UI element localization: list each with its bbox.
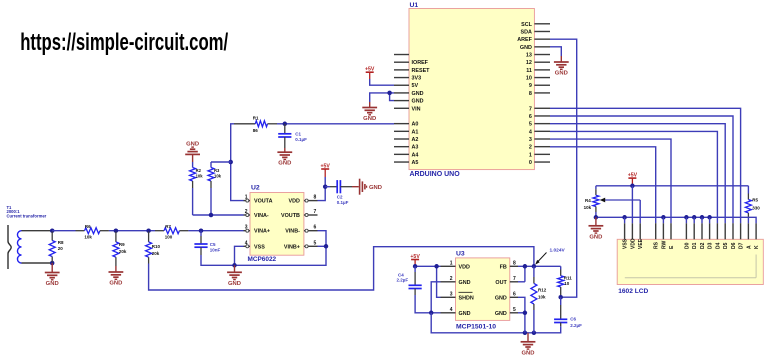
svg-text:12: 12 — [526, 60, 532, 66]
svg-text:4: 4 — [529, 129, 532, 135]
wire rail R6 to R7 — [109, 230, 155, 232]
svg-text:10: 10 — [564, 281, 570, 286]
svg-text:R3: R3 — [214, 168, 220, 173]
svg-text:A0: A0 — [412, 122, 419, 128]
svg-text:A4: A4 — [412, 152, 419, 158]
svg-text:IOREF: IOREF — [412, 60, 429, 66]
LCD inner screen outline — [625, 277, 756, 279]
svg-text:R12: R12 — [538, 288, 547, 293]
svg-text:VSS: VSS — [254, 244, 265, 250]
svg-text:A: A — [746, 245, 752, 249]
svg-text:6: 6 — [513, 291, 516, 297]
svg-text:U1: U1 — [410, 2, 419, 9]
svg-text:C2: C2 — [337, 195, 343, 200]
node LCD VDD junction — [630, 184, 635, 189]
resistor R5 — [747, 186, 749, 194]
svg-text:RS: RS — [654, 241, 660, 249]
svg-text:FB: FB — [500, 264, 507, 270]
svg-text:GND: GND — [369, 185, 382, 191]
svg-text:AREF: AREF — [517, 37, 532, 43]
svg-text:11: 11 — [526, 68, 532, 74]
svg-text:RW: RW — [661, 240, 667, 249]
svg-text:SDA: SDA — [521, 29, 532, 35]
wire LCD +5V rail — [596, 185, 749, 187]
svg-text:3V3: 3V3 — [412, 76, 422, 82]
svg-text:D7: D7 — [739, 242, 745, 249]
svg-text:10k: 10k — [84, 235, 92, 240]
svg-text:5: 5 — [513, 307, 516, 313]
svg-text:10k: 10k — [196, 173, 204, 178]
svg-text:10nF: 10nF — [210, 247, 221, 252]
svg-text:D4: D4 — [715, 242, 721, 249]
wire T1 top lead — [22, 230, 53, 232]
svg-text:330: 330 — [752, 206, 760, 211]
wire +5V to U1 5V pin — [370, 79, 394, 85]
svg-text:0: 0 — [529, 160, 532, 166]
node A0/C1 junction — [283, 122, 288, 127]
U1 right pins (SCL SDA AREF GND 13-8, 7-0) — [534, 23, 550, 25]
svg-text:GND: GND — [186, 141, 199, 147]
node FB junction — [523, 264, 528, 269]
U1 left pins (IOREF RESET 3V3 5V GND GND VIN A0-A5) — [394, 54, 409, 56]
wire U1 pin 6->D6 — [550, 116, 733, 223]
svg-text:VOUTA: VOUTA — [254, 199, 273, 205]
resistor R8 — [51, 232, 53, 241]
svg-text:https://simple-circuit.com/: https://simple-circuit.com/ — [20, 29, 228, 56]
resistor R9 — [115, 232, 117, 242]
svg-text:R7: R7 — [165, 224, 171, 229]
svg-text:C5: C5 — [210, 242, 216, 247]
svg-text:GND: GND — [363, 116, 376, 122]
svg-text:GND: GND — [412, 91, 424, 97]
svg-text:GND: GND — [459, 280, 471, 286]
resistor R12 — [533, 266, 535, 277]
svg-text:VOUTB: VOUTB — [281, 213, 300, 219]
svg-text:GND: GND — [459, 311, 471, 317]
wire U1 pin 5->D5 — [550, 124, 725, 224]
svg-text:A2: A2 — [412, 137, 419, 143]
svg-text:GND: GND — [412, 99, 424, 105]
svg-text:A5: A5 — [412, 160, 419, 166]
svg-text:7: 7 — [513, 276, 516, 282]
svg-text:6: 6 — [314, 225, 317, 231]
svg-text:0.1µF: 0.1µF — [337, 200, 349, 205]
svg-text:C4: C4 — [398, 272, 404, 277]
ground (C1) — [284, 148, 286, 152]
node R9 junction — [114, 228, 119, 233]
svg-text:D0: D0 — [684, 242, 690, 249]
ground (U1 right) — [560, 56, 562, 62]
transformer T1 secondary coil — [17, 231, 21, 263]
svg-text:1602 LCD: 1602 LCD — [618, 288, 648, 295]
svg-text:MCP1501-10: MCP1501-10 — [456, 323, 496, 330]
svg-text:C6: C6 — [570, 317, 576, 322]
resistor R7 — [155, 230, 164, 232]
svg-text:VSS: VSS — [623, 238, 629, 249]
svg-text:8: 8 — [314, 195, 317, 201]
node U3 pin4 junction — [429, 311, 434, 316]
svg-text:1: 1 — [529, 152, 532, 158]
capacitor C6 — [560, 297, 562, 305]
ground (U1 left) — [369, 102, 371, 108]
vref U3 body — [456, 258, 510, 321]
svg-text:GND: GND — [278, 161, 291, 167]
svg-text:SHDN: SHDN — [459, 295, 474, 301]
node ground rail / pins 5-6 — [523, 331, 528, 336]
svg-text:A3: A3 — [412, 145, 419, 151]
svg-text:13: 13 — [526, 53, 532, 59]
svg-text:2: 2 — [450, 276, 453, 282]
ground (LCD) — [595, 217, 597, 226]
svg-text:VINA-: VINA- — [254, 213, 269, 219]
svg-text:OUT: OUT — [495, 280, 507, 286]
svg-text:VINA+: VINA+ — [254, 229, 270, 235]
wire U1 GND pins to ground — [370, 93, 394, 102]
svg-text:GND: GND — [520, 45, 532, 51]
svg-text:SCL: SCL — [521, 22, 532, 28]
display LCD1 body — [617, 239, 763, 284]
svg-text:8: 8 — [513, 260, 516, 266]
svg-text:1.024V: 1.024V — [550, 247, 566, 253]
svg-text:A1: A1 — [412, 129, 419, 135]
svg-text:C1: C1 — [295, 132, 301, 137]
node R4 bottom junction — [594, 215, 599, 220]
wire +5V to U3 VDD / SHDN — [415, 265, 440, 267]
svg-text:3: 3 — [450, 291, 453, 297]
power ground terminal (C2 right) — [352, 186, 359, 188]
svg-text:4: 4 — [245, 240, 248, 246]
wire U2 VOUTA to R1 (node A0 feed) — [231, 124, 244, 201]
svg-text:R2: R2 — [196, 168, 202, 173]
svg-text:20k: 20k — [152, 251, 160, 256]
wire U1 AREF to 1.024V reference node — [550, 39, 577, 297]
wire U3 GND pins 5,6 to rail — [518, 297, 525, 333]
svg-text:R10: R10 — [152, 244, 161, 249]
potentiometer R4 — [595, 186, 597, 189]
node 1.024V junction — [532, 264, 537, 269]
svg-text:GND: GND — [522, 350, 535, 356]
wire +5V to U2 VDD pin — [318, 187, 326, 201]
svg-text:GND: GND — [589, 234, 602, 240]
U2 left pins 1-4 — [244, 200, 251, 202]
svg-text:VDD: VDD — [630, 238, 636, 249]
wire U3 FB/OUT tie — [518, 265, 561, 267]
wire T1 bottom lead — [22, 262, 53, 264]
svg-text:D1: D1 — [692, 242, 698, 249]
node R11 bottom junction — [558, 295, 563, 300]
node VSS/GND junction — [232, 263, 237, 268]
wire U2 ground rail — [201, 231, 326, 266]
svg-text:2: 2 — [529, 145, 532, 151]
op-amp U2 body — [250, 193, 304, 256]
node T1 bottom junction — [50, 261, 55, 266]
svg-text:2.2µF: 2.2µF — [570, 323, 582, 328]
ground (R9) — [115, 266, 117, 272]
svg-text:3: 3 — [529, 137, 532, 143]
svg-text:Current transformer: Current transformer — [7, 214, 47, 219]
capacitor C5 — [200, 231, 202, 236]
resistor R6 — [76, 230, 85, 232]
svg-text:VINB-: VINB- — [285, 229, 300, 235]
wire R1 to U1 A0 — [277, 123, 394, 125]
ground (U2 VSS) — [234, 265, 236, 272]
svg-text:GND: GND — [109, 281, 122, 287]
U3 left pins 1-4 — [441, 265, 456, 267]
node VDD/C2 junction — [323, 184, 328, 189]
wire 1.024V offset net (R10 to U3 FB node) — [149, 247, 534, 290]
svg-text:R4: R4 — [585, 198, 591, 203]
svg-text:R11: R11 — [564, 276, 573, 281]
svg-text:10k: 10k — [214, 173, 222, 178]
wire U1 pin 3->E — [550, 139, 671, 223]
R4 wiper — [604, 199, 641, 201]
svg-text:20: 20 — [58, 246, 64, 251]
svg-text:GND: GND — [555, 71, 568, 77]
svg-text:D2: D2 — [700, 242, 706, 249]
svg-text:GND: GND — [228, 281, 241, 287]
node C5 junction — [199, 228, 204, 233]
transformer T1 primary — [8, 225, 11, 269]
svg-text:10: 10 — [526, 76, 532, 82]
node VINB+ junction — [324, 244, 329, 249]
ground (above R2, flipped) — [192, 154, 194, 162]
svg-text:ARDUINO UNO: ARDUINO UNO — [410, 171, 461, 178]
svg-text:100: 100 — [165, 235, 173, 240]
svg-text:9: 9 — [529, 83, 532, 89]
wire VOUTA node to R3 top — [211, 161, 231, 163]
svg-text:5: 5 — [529, 122, 532, 128]
svg-text:2.2µF: 2.2µF — [397, 278, 409, 283]
resistor R11 — [560, 266, 562, 269]
wire VINA- line — [193, 214, 244, 216]
wire U1 pin 4->D4 — [550, 131, 717, 223]
svg-text:8: 8 — [529, 91, 532, 97]
svg-text:R9: R9 — [119, 242, 125, 247]
svg-text:2: 2 — [245, 209, 248, 215]
svg-text:D6: D6 — [731, 242, 737, 249]
svg-text:VIN: VIN — [412, 106, 421, 112]
wire U3 GND pin 2 down — [431, 282, 440, 313]
wire U1 pin 2->RS — [550, 147, 656, 223]
LCD pins VSS..K — [624, 223, 626, 239]
svg-text:R6: R6 — [85, 224, 91, 229]
svg-text:VDD: VDD — [459, 264, 470, 270]
node R3/VINA- junction — [209, 213, 214, 218]
nodes LCD ground rail (VSS RW D0-D3) — [622, 215, 627, 220]
svg-text:K: K — [754, 245, 760, 249]
wire LCD ground rail — [596, 217, 756, 223]
svg-text:GND: GND — [46, 281, 59, 287]
svg-text:R8: R8 — [58, 240, 64, 245]
mcu U1 body — [409, 9, 534, 170]
wire U3 bottom ground rail — [431, 313, 561, 333]
node VOUTA/R3 junction — [228, 160, 233, 165]
ground (U3) — [527, 333, 529, 342]
svg-text:U3: U3 — [456, 250, 465, 257]
resistor R10 — [148, 232, 150, 242]
svg-text:5: 5 — [314, 240, 317, 246]
svg-text:5V: 5V — [412, 83, 419, 89]
svg-text:1: 1 — [245, 195, 248, 201]
wire rail R7 to U2 VINA+ — [188, 230, 243, 232]
wire U1 pin 7->D7 — [550, 108, 741, 223]
svg-text:U2: U2 — [251, 185, 260, 192]
ground (T1/R8) — [51, 263, 53, 273]
svg-text:VEE: VEE — [638, 238, 644, 249]
U2 right pins 8-5 — [304, 200, 318, 202]
svg-text:7: 7 — [314, 209, 317, 215]
svg-text:86: 86 — [253, 128, 259, 133]
svg-text:MCP6022: MCP6022 — [248, 256, 277, 263]
U3 right pins 8-5 — [510, 265, 518, 267]
wire C4 bottom to U3 GND pin 4 — [415, 295, 440, 313]
svg-text:10k: 10k — [584, 205, 592, 210]
svg-text:10k: 10k — [538, 295, 546, 300]
node T1 top junction — [50, 228, 55, 233]
node U3 +5V junction — [413, 264, 418, 269]
capacitor C2 — [325, 186, 330, 188]
svg-text:20k: 20k — [119, 249, 127, 254]
capacitor C4 — [414, 266, 416, 272]
svg-text:R1: R1 — [253, 115, 259, 120]
svg-text:7: 7 — [529, 106, 532, 112]
resistor R1 — [234, 123, 255, 125]
svg-text:D5: D5 — [723, 242, 729, 249]
wire main rail T1 to R6 — [52, 230, 75, 232]
svg-text:RESET: RESET — [412, 68, 431, 74]
svg-text:6: 6 — [529, 114, 532, 120]
node U1 GND pins junction — [387, 91, 392, 96]
svg-text:0.1µF: 0.1µF — [295, 137, 307, 142]
svg-text:1: 1 — [450, 260, 453, 266]
svg-text:3: 3 — [245, 225, 248, 231]
resistor R3 — [210, 162, 212, 168]
node U3 SHDN junction — [434, 264, 439, 269]
svg-text:4: 4 — [450, 307, 453, 313]
node R10 junction — [146, 228, 151, 233]
wire U1 right GND pin to ground — [550, 47, 561, 56]
node U3 pin5 junction — [523, 311, 528, 316]
capacitor C1 — [284, 124, 286, 134]
resistor R2 — [192, 162, 194, 168]
svg-text:GND: GND — [495, 295, 507, 301]
wire +5V to LCD VDD — [631, 186, 633, 223]
svg-text:D3: D3 — [708, 242, 714, 249]
svg-text:VINB+: VINB+ — [284, 244, 300, 250]
svg-text:GND: GND — [495, 311, 507, 317]
svg-text:R5: R5 — [752, 198, 758, 203]
svg-text:VDD: VDD — [289, 199, 300, 205]
